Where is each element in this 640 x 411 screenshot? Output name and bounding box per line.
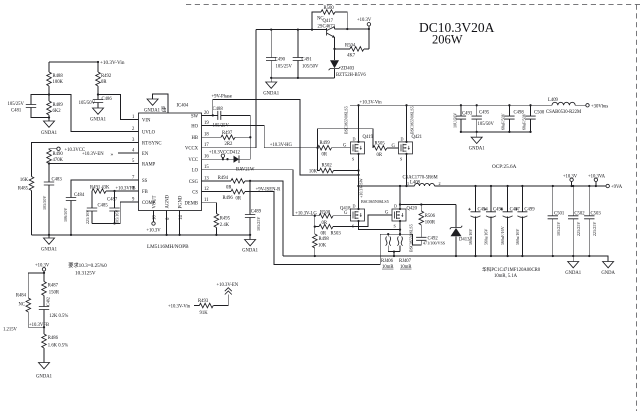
svg-text:C496: C496 (493, 207, 504, 212)
resistor R485 (29, 177, 34, 191)
resistor R495 (214, 214, 219, 228)
svg-text:R504: R504 (345, 44, 356, 49)
resistor R502 (gate pulldown) (318, 148, 359, 171)
capacitor C500 (530, 105, 532, 132)
node +10.3V-Vin main rail (350, 104, 552, 106)
svg-text:471/100/VSS: 471/100/VSS (423, 241, 446, 246)
svg-text:GNDA1: GNDA1 (90, 118, 107, 123)
svg-text:+10.3V-Vin: +10.3V-Vin (100, 60, 125, 66)
shunt RJ407 10mR (399, 237, 401, 252)
svg-text:EN: EN (142, 152, 149, 157)
svg-text:RJ406: RJ406 (381, 259, 394, 264)
wire HO pin19 to +10.3V-HG (202, 126, 318, 148)
svg-text:C481: C481 (11, 109, 22, 114)
resistor R496 (231, 189, 245, 194)
svg-text:D: D (401, 137, 404, 142)
svg-text:Q420: Q420 (407, 207, 418, 212)
svg-text:+10.3VCCD412: +10.3VCCD412 (209, 150, 241, 155)
wire +10.3V-LG gate network (314, 215, 316, 217)
resistor R499 (332, 147, 351, 149)
svg-text:10K: 10K (318, 244, 327, 249)
svg-text:BSC065N06LS5: BSC065N06LS5 (361, 199, 389, 204)
dashed page border right (636, 5, 638, 411)
svg-text:+10.3V-Vin: +10.3V-Vin (360, 100, 383, 105)
resistor R500b (low gate Q418) (315, 214, 351, 217)
svg-text:+10.3V-EN: +10.3V-EN (82, 152, 104, 157)
svg-text:»: » (111, 151, 114, 157)
svg-text:C500: C500 (534, 110, 545, 115)
svg-text:+10.3VFB: +10.3VFB (116, 186, 136, 191)
svg-text:R486: R486 (48, 336, 59, 341)
svg-text:+10.3VFB: +10.3VFB (29, 323, 49, 328)
svg-text:要求10.3=0.25%0: 要求10.3=0.25%0 (68, 261, 107, 269)
svg-text:C488: C488 (213, 107, 224, 112)
svg-text:Q421: Q421 (412, 135, 423, 140)
svg-text:21: 21 (162, 105, 167, 110)
svg-text:12: 12 (204, 187, 209, 192)
capacitor C497 (507, 186, 509, 256)
svg-text:10mR: 10mR (400, 265, 412, 270)
svg-text:0R: 0R (322, 153, 328, 158)
svg-text:+30Vbus: +30Vbus (591, 104, 608, 109)
svg-text:10mR: 10mR (382, 265, 394, 270)
wire VIN to pin1 (98, 95, 139, 120)
svg-text:SW: SW (191, 114, 199, 119)
svg-text:GNDA1: GNDA1 (469, 147, 486, 152)
ground GNDA1 (572, 256, 574, 262)
svg-text:18: 18 (204, 133, 209, 138)
node +10.3VFB (28, 326, 44, 328)
svg-text:RT/SYNC: RT/SYNC (142, 141, 162, 146)
svg-text:105/50V: 105/50V (79, 101, 96, 106)
svg-text:105/25V: 105/25V (8, 102, 25, 107)
wire analog ground rail (32, 234, 251, 236)
resistor R497 (221, 135, 235, 140)
diode D413 (freewheel) (455, 205, 457, 257)
wire LO pin15 to +10.3V-LG (202, 170, 315, 216)
wire switch node rail to L408 (359, 185, 415, 187)
svg-text:R492: R492 (101, 74, 112, 79)
svg-text:R493: R493 (198, 299, 209, 304)
svg-text:GNDA1: GNDA1 (263, 92, 280, 97)
svg-text:225/25V: 225/25V (592, 222, 597, 236)
svg-text:10K: 10K (309, 170, 318, 175)
svg-text:C499: C499 (524, 207, 535, 212)
terminal +10.3V (571, 182, 573, 187)
svg-text:C484: C484 (74, 193, 85, 198)
transistor Q419 (hi-side) (351, 141, 365, 155)
svg-text:206W: 206W (432, 33, 463, 47)
capacitor C494 (475, 186, 477, 256)
svg-text:13: 13 (204, 176, 209, 181)
zener ZD403 BZT52H-B5V6 (334, 49, 336, 78)
wire CSG pin13 (202, 181, 284, 256)
capacitor C484 (66, 198, 76, 201)
svg-text:14: 14 (179, 215, 184, 220)
shunt RJ406 10mR (380, 234, 400, 264)
svg-text:AGND: AGND (166, 194, 171, 208)
svg-text:BSC065N06LS5: BSC065N06LS5 (344, 106, 349, 134)
svg-text:UVLO: UVLO (142, 130, 156, 135)
svg-text:C495: C495 (479, 110, 490, 115)
svg-text:0R: 0R (101, 80, 107, 85)
svg-text:IC404: IC404 (177, 104, 189, 109)
capacitor C483 (48, 164, 50, 235)
svg-text:R502: R502 (322, 164, 333, 169)
svg-text:+10.3V-EN: +10.3V-EN (217, 283, 239, 288)
pin 14 PGND (179, 211, 181, 235)
svg-text:LO: LO (192, 169, 199, 174)
svg-text:R497: R497 (222, 131, 233, 136)
wire Q421 gate branch (318, 129, 373, 148)
resistor R491 (92, 189, 106, 194)
ground GNDA (603, 262, 614, 268)
wire bias ground rail (271, 77, 334, 79)
wire HG gate node (316, 147, 318, 149)
svg-text:NC: NC (18, 303, 25, 308)
svg-text:LM5116MH/NOPB: LM5116MH/NOPB (147, 244, 189, 250)
pin 10 VOUT to +10.3V (153, 211, 155, 222)
svg-text:100R: 100R (425, 221, 436, 226)
svg-text:105/25V: 105/25V (556, 222, 561, 236)
wire output ground rail (283, 256, 608, 262)
svg-text:HO: HO (191, 124, 198, 129)
svg-text:+10.3V-SW: +10.3V-SW (359, 178, 364, 198)
transistor Q418 (lo-side) (351, 208, 365, 222)
svg-text:R489: R489 (53, 103, 64, 108)
wire emitter node (334, 37, 336, 49)
resistor R500 (NC, top) (312, 12, 347, 30)
svg-text:FB: FB (142, 190, 148, 195)
svg-text:OCP:25.6A: OCP:25.6A (492, 164, 517, 170)
op-amp IC404 LM5116MH/NOPB body (139, 113, 202, 211)
svg-text:RAMP: RAMP (142, 162, 156, 167)
svg-text:GNDA: GNDA (601, 271, 615, 276)
svg-text:HB: HB (191, 136, 198, 141)
svg-text:11: 11 (204, 198, 209, 203)
svg-text:2R2: 2R2 (225, 142, 233, 147)
svg-text:105/16V: 105/16V (115, 210, 120, 224)
node +10.3V-EN (up arrow) (225, 288, 232, 295)
svg-text:2.4K: 2.4K (220, 223, 230, 228)
resistor R506 (420, 205, 422, 238)
svg-text:CSG: CSG (189, 180, 199, 185)
svg-text:D: D (353, 204, 356, 209)
svg-text:105/50V: 105/50V (302, 64, 319, 69)
svg-text:CS: CS (192, 191, 198, 196)
svg-text:Q419: Q419 (363, 135, 374, 140)
svg-text:105/25V: 105/25V (276, 64, 293, 69)
svg-text:0R: 0R (236, 196, 242, 201)
svg-text:C493: C493 (462, 112, 473, 117)
svg-text:SS: SS (142, 179, 148, 184)
svg-text:20: 20 (204, 111, 209, 116)
resistor R490 (47, 150, 52, 164)
svg-text:2SC4672: 2SC4672 (318, 25, 336, 30)
svg-text:D: D (353, 137, 356, 142)
svg-text:+10.3VCC: +10.3VCC (65, 148, 86, 153)
svg-text:560u/16V: 560u/16V (468, 229, 473, 245)
resistor R494 (231, 179, 245, 184)
svg-text:C503: C503 (591, 211, 602, 216)
svg-text:VIN: VIN (142, 119, 151, 124)
svg-text:C482: C482 (46, 297, 51, 306)
svg-text:GNDA1: GNDA1 (242, 249, 259, 254)
svg-text:10: 10 (153, 215, 158, 220)
wire RT/SYNC pin3 (32, 143, 139, 177)
capacitor C502 (572, 186, 574, 256)
svg-text:0R: 0R (321, 232, 327, 237)
svg-text:+10.3V: +10.3V (357, 18, 372, 23)
wire UVLO to pin2 (49, 95, 139, 132)
wire snubber top (400, 204, 456, 206)
svg-text:4K7: 4K7 (347, 54, 356, 59)
svg-text:19: 19 (204, 121, 209, 126)
svg-text:C490: C490 (275, 57, 286, 62)
resistor R489 (48, 95, 50, 118)
capacitor C495 (476, 105, 478, 132)
svg-text:R494: R494 (218, 176, 229, 181)
terminal +10.3VA (595, 182, 597, 187)
svg-text:R487: R487 (48, 284, 59, 289)
capacitor C491 (297, 30, 299, 78)
svg-text:10U/50V: 10U/50V (453, 113, 458, 128)
svg-text:VCCX: VCCX (185, 147, 199, 152)
svg-text:+10.3VA: +10.3VA (588, 175, 606, 180)
wire input cap ground rail (461, 131, 531, 133)
svg-text:1.215V: 1.215V (3, 328, 18, 333)
svg-text:C486: C486 (102, 97, 113, 102)
wire output +10.3V rail (435, 185, 607, 187)
transistor Q421 (hi-side) (399, 141, 413, 155)
svg-text:C502: C502 (574, 211, 585, 216)
svg-text:12K 0.5%: 12K 0.5% (49, 314, 68, 319)
capacitor C488 (bootstrap) (218, 111, 221, 120)
svg-text:R484: R484 (16, 294, 27, 299)
capacitor C490 (270, 30, 272, 78)
capacitor C496 (490, 186, 492, 256)
svg-text:105/25V: 105/25V (256, 217, 261, 231)
svg-text:15: 15 (204, 165, 209, 170)
resistor R504 (335, 48, 369, 50)
ground GNDA1 (93, 108, 104, 114)
svg-text:DEMB: DEMB (184, 202, 198, 207)
svg-text:17: 17 (204, 143, 209, 148)
svg-text:R485: R485 (18, 187, 29, 192)
svg-text:+9V-Phase: +9V-Phase (212, 95, 232, 100)
svg-text:105/50V: 105/50V (478, 122, 495, 127)
svg-text:华科PC1C471MF120A00CR0: 华科PC1C471MF120A00CR0 (482, 266, 541, 273)
wire VCCX bias rail (256, 29, 327, 31)
svg-text:16K: 16K (20, 178, 29, 183)
svg-text:560u/16V: 560u/16V (484, 229, 489, 245)
node +10.3V-Vin (top-left rail) (49, 61, 98, 63)
svg-text:100K: 100K (53, 80, 64, 85)
pin 21 EP to GNDA1 (153, 94, 168, 113)
wire RAMP pin5 (49, 163, 139, 165)
svg-text:68uF/50V: 68uF/50V (501, 113, 506, 130)
transistor Q420 (lo-side) (392, 208, 406, 222)
wire SW pin20 (202, 114, 218, 116)
svg-text:C487: C487 (107, 198, 118, 203)
svg-text:C501: C501 (554, 211, 565, 216)
ground GNDA1 (249, 235, 251, 240)
svg-text:PGND: PGND (179, 195, 184, 208)
svg-text:VOUT: VOUT (153, 195, 158, 208)
wire HB pin18 (202, 136, 251, 138)
svg-text:560uF/16V: 560uF/16V (500, 226, 505, 245)
svg-text:0R: 0R (377, 153, 383, 158)
svg-text:D: D (394, 204, 397, 209)
ground GNDA1 (270, 78, 272, 82)
svg-text:R503: R503 (331, 232, 342, 237)
capacitor C499 (521, 186, 523, 256)
svg-text:91K: 91K (200, 311, 209, 316)
svg-text:R490: R490 (53, 152, 64, 157)
svg-text:106/50V: 106/50V (63, 208, 68, 222)
svg-text:GNDA1: GNDA1 (41, 248, 58, 253)
svg-text:R498: R498 (319, 237, 330, 242)
wire VCCX pin17 to phase (202, 30, 257, 148)
svg-text:225/25V: 225/25V (576, 222, 581, 236)
wire collector to +10.3V (335, 28, 369, 30)
diode D412 BAV21W (234, 156, 240, 163)
svg-text:ZD403: ZD403 (341, 67, 355, 72)
capacitor C486 (97, 95, 99, 109)
svg-text:Q417: Q417 (323, 19, 334, 24)
svg-text:CSAC1770-5R6M: CSAC1770-5R6M (403, 176, 439, 181)
svg-text:+9V-ISEN-R: +9V-ISEN-R (256, 187, 281, 192)
terminal +10.3VCC (221, 154, 224, 157)
svg-text:C489: C489 (251, 210, 262, 215)
capacitor C485 (91, 191, 93, 223)
svg-text:+9VA: +9VA (611, 185, 623, 190)
pin 6 AGND (166, 211, 168, 235)
svg-text:C491: C491 (302, 57, 313, 62)
capacitor C501 (552, 186, 554, 256)
svg-text:0R: 0R (226, 185, 232, 190)
svg-text:16: 16 (204, 155, 209, 160)
capacitor C482 (39, 307, 49, 310)
ground GNDA1 (48, 118, 50, 122)
svg-text:68uF/50V: 68uF/50V (522, 113, 527, 130)
terminal +30Vbus (586, 104, 589, 107)
ground GNDA1 (39, 363, 50, 369)
capacitor C493 (460, 105, 462, 132)
svg-text:GNDA1: GNDA1 (565, 271, 582, 276)
wire shunt bottoms to PGND rail (388, 252, 400, 256)
resistor R488 (48, 62, 50, 95)
svg-text:R491 43K: R491 43K (90, 185, 110, 190)
svg-text:225/16V: 225/16V (85, 210, 90, 224)
svg-text:R500: R500 (324, 6, 335, 11)
dashed page border top (186, 4, 640, 6)
svg-text:R500: R500 (320, 210, 331, 215)
svg-text:R499: R499 (320, 141, 331, 146)
svg-text:C485: C485 (98, 204, 109, 209)
svg-text:6K2: 6K2 (53, 109, 62, 114)
svg-text:470K: 470K (53, 158, 64, 163)
resistor R493 91K (194, 295, 228, 306)
ground GNDA1 (476, 132, 478, 137)
svg-text:150R: 150R (49, 291, 60, 296)
svg-text:VCC: VCC (188, 158, 198, 163)
capacitor C498 (508, 105, 510, 132)
wire VCC pin16 (202, 158, 234, 160)
wire DEMB pin11 (202, 203, 217, 214)
capacitor C489 (249, 181, 251, 235)
capacitor C487 (114, 191, 116, 223)
resistor R486 (43, 327, 45, 362)
capacitor C481 (31, 95, 49, 118)
svg-text:C483: C483 (52, 178, 63, 183)
capacitor C503 (588, 186, 590, 256)
svg-text:R495: R495 (220, 217, 231, 222)
svg-text:R506: R506 (425, 214, 436, 219)
svg-text:CSAB0530-R22M: CSAB0530-R22M (546, 110, 582, 115)
svg-text:+10.3V: +10.3V (146, 229, 161, 234)
ground GNDA1 (main analog rail) (48, 235, 50, 238)
svg-text:2: 2 (439, 181, 441, 186)
svg-text:BZT52H-B5V6: BZT52H-B5V6 (336, 73, 366, 78)
resistor R484 (NC) (28, 273, 44, 327)
terminal +9VA (606, 184, 609, 187)
svg-text:R488: R488 (53, 74, 64, 79)
svg-text:+10.3V: +10.3V (35, 263, 50, 268)
svg-text:105/25V: 105/25V (213, 124, 230, 129)
resistor R487 (42, 282, 47, 296)
svg-text:+10.3V-Vin: +10.3V-Vin (168, 304, 191, 309)
node +10.3VFB / FB pin8 (106, 190, 139, 192)
svg-text:GNDA1: GNDA1 (144, 109, 161, 114)
svg-text:GNDA1: GNDA1 (36, 375, 53, 380)
resistor R498 (gate pulldown) (314, 227, 316, 256)
terminal +10.3VCC (57, 147, 60, 150)
svg-text:1.6K 0.5%: 1.6K 0.5% (48, 344, 68, 349)
wire SS pin7 (71, 180, 139, 198)
wire CS pin12 to +9V-ISEN-R (202, 192, 381, 265)
transistor Q417 2SC4672 (326, 28, 328, 36)
svg-text:GNDA1: GNDA1 (41, 131, 58, 136)
resistor R503 (low gate Q420) (315, 215, 392, 227)
node UVLO junction (48, 93, 50, 95)
svg-text:10.3125V: 10.3125V (75, 271, 96, 277)
node +9V-Phase (213, 100, 359, 175)
wire comp network to COMP pin9 (92, 202, 139, 223)
svg-text:560u/16V: 560u/16V (515, 229, 520, 245)
capacitor C492 (416, 237, 426, 240)
svg-text:105/50V: 105/50V (42, 196, 47, 210)
terminal +10.3V (367, 23, 370, 26)
svg-text:RJ407: RJ407 (399, 259, 412, 264)
svg-text:BSC065N06LS5: BSC065N06LS5 (410, 106, 415, 134)
svg-text:10mR, 5.1A: 10mR, 5.1A (494, 274, 518, 279)
svg-text:1: 1 (407, 181, 409, 186)
resistor R505 (387, 147, 399, 149)
svg-text:R505: R505 (375, 141, 386, 146)
svg-text:+10.3V: +10.3V (563, 175, 578, 180)
svg-text:R496: R496 (223, 196, 234, 201)
svg-text:+10.3V-HG: +10.3V-HG (270, 143, 293, 148)
resistor R492 (97, 62, 99, 95)
